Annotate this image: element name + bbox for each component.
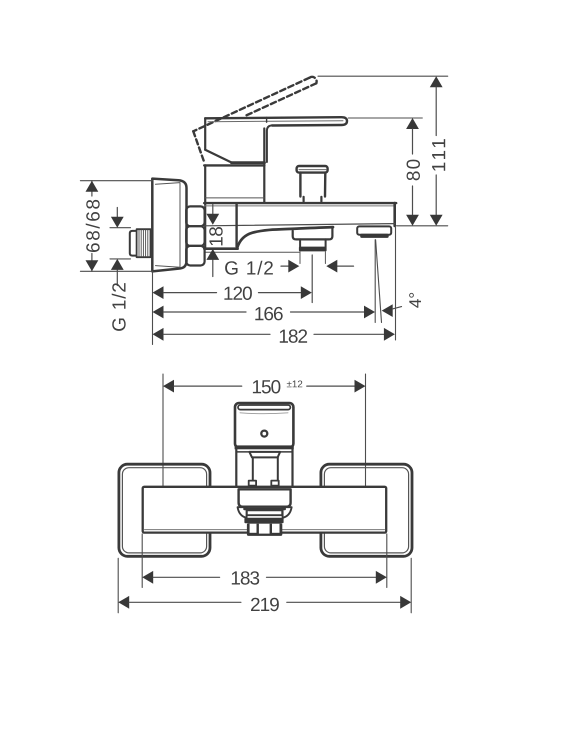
lever front diagonal bbox=[205, 150, 231, 163]
valve body left ear bbox=[238, 507, 247, 518]
right wall centreline bbox=[365, 374, 367, 508]
wall plate inner vertical line bbox=[179, 183, 181, 267]
spout aerator band bbox=[360, 234, 389, 238]
aerator tip slot 2 bbox=[259, 524, 270, 534]
dimension 4deg arrow bbox=[382, 304, 393, 317]
left wall centreline bbox=[162, 374, 164, 508]
183 extension lines bbox=[142, 534, 387, 588]
dimension 120 bbox=[153, 286, 164, 299]
lever parting tick bbox=[266, 117, 268, 122]
body bar inner bottom line bbox=[145, 529, 385, 531]
handle front view bbox=[235, 403, 293, 448]
spout hidden bottom line bbox=[205, 251, 300, 253]
body bar top edge bbox=[204, 202, 396, 204]
shower outlet collar bbox=[293, 227, 333, 239]
shower outlet edge extension lines bbox=[300, 252, 325, 264]
dashed lever lower edge bbox=[247, 83, 317, 115]
aerator tip slot 3 bbox=[272, 524, 280, 533]
wall extension line bbox=[152, 273, 154, 345]
left escutcheon inner bbox=[122, 468, 206, 553]
dimension 68/68 top arrow bbox=[86, 181, 99, 192]
aerator dark band bbox=[244, 518, 283, 524]
neck sides bbox=[253, 457, 278, 480]
dimension 219 bbox=[118, 596, 129, 609]
G 1/2 dimension right arrow bbox=[337, 265, 353, 267]
dimension 183 bbox=[142, 571, 153, 584]
neck collar bbox=[249, 452, 280, 458]
cartridge block top edge bbox=[204, 164, 264, 166]
valve body right ear bbox=[283, 507, 292, 518]
nipple dimension upper arrow bbox=[116, 208, 118, 217]
wall plate inner top line bbox=[156, 183, 181, 185]
aerator tip slot 1 bbox=[250, 524, 257, 533]
label G 1/2 (left, rotated) bbox=[112, 283, 126, 331]
219 extension lines bbox=[118, 558, 411, 613]
label G 1/2 (outlet) bbox=[225, 261, 273, 275]
cartridge block lower thin line bbox=[205, 197, 264, 199]
neck right foot bbox=[271, 481, 278, 486]
hex nut facet 3 bbox=[186, 246, 204, 266]
label 4deg bbox=[409, 293, 421, 308]
extension line raised lever top (111) bbox=[318, 75, 448, 77]
handle shade line bbox=[240, 412, 288, 415]
extension tick nipple top bbox=[110, 227, 131, 229]
wall plate inner bottom line bbox=[156, 266, 181, 268]
cartridge sleeve top line bbox=[236, 451, 292, 453]
bar right edge extension line bbox=[395, 227, 397, 340]
lever top highlight line bbox=[208, 120, 343, 123]
nipple dimension lower arrow bbox=[116, 270, 118, 286]
body bar right edge bbox=[393, 203, 396, 226]
diverter knob inner line bbox=[299, 169, 326, 171]
shower outlet tube bbox=[300, 239, 326, 247]
extension line plate top bbox=[80, 180, 152, 182]
spout block bottom edge bbox=[204, 247, 237, 250]
hex nut facet 2 bbox=[186, 226, 204, 246]
shower outlet thread band bbox=[299, 247, 327, 252]
aerator collar band bbox=[247, 510, 282, 515]
wall plate outline bbox=[152, 179, 186, 272]
dashed lever tip arc bbox=[310, 77, 317, 83]
extension tick nipple bottom bbox=[110, 258, 131, 260]
G 1/2 dimension left arrow bbox=[281, 265, 289, 267]
spout 4deg slant line bbox=[376, 240, 382, 323]
solid lever top bar bbox=[205, 117, 347, 125]
neck left foot bbox=[249, 481, 256, 486]
body bar bottom line bbox=[205, 224, 395, 226]
diverter knob foot bbox=[304, 197, 322, 202]
cartridge sleeve sides bbox=[236, 449, 292, 486]
threaded nipple cap bbox=[130, 231, 137, 256]
spout underside curve bbox=[237, 227, 333, 248]
right escutcheon outer bbox=[321, 464, 412, 556]
valve body block bbox=[239, 489, 291, 506]
dimension 68/68 line bbox=[91, 181, 93, 272]
spout outlet box bbox=[357, 226, 391, 234]
threaded nipple body bbox=[137, 229, 151, 257]
diverter knob body bbox=[300, 173, 325, 197]
extension line body bottom right bbox=[397, 225, 448, 227]
body bar top inner line bbox=[204, 205, 395, 207]
handle top slot bbox=[238, 405, 290, 410]
dimension 166 bbox=[153, 306, 164, 319]
dimension 18 upper arrow bbox=[212, 205, 214, 214]
extension line lever top (80) bbox=[348, 117, 422, 119]
spout block right edge bbox=[235, 204, 237, 247]
left escutcheon outer bbox=[119, 464, 210, 556]
dimension 111 bbox=[430, 76, 443, 87]
label 18 bbox=[209, 227, 222, 245]
dimension 80 bbox=[406, 118, 419, 129]
handle dot bbox=[261, 431, 267, 437]
dashed lever (raised position) upper edge bbox=[193, 78, 309, 132]
lever left edge bbox=[204, 118, 206, 149]
cartridge block left edge + spout block left edge bbox=[204, 165, 206, 248]
body bar front view bbox=[143, 487, 387, 533]
nipple thread hatching bbox=[139, 230, 148, 257]
lever right edge with corner bbox=[267, 125, 272, 162]
dimension 18 lower arrow bbox=[212, 260, 214, 277]
spout vertical reference line bbox=[374, 240, 376, 323]
dashed lever heel bbox=[193, 131, 204, 163]
handle bottom band bbox=[235, 445, 294, 449]
cartridge top dark band bbox=[232, 161, 265, 164]
dimension 150 +-12 bbox=[163, 380, 174, 393]
dimension 68/68 bottom arrow bbox=[86, 260, 99, 271]
diverter knob flange bbox=[297, 166, 328, 173]
right escutcheon inner bbox=[324, 468, 408, 553]
extension line plate bottom bbox=[80, 270, 153, 272]
aerator collar top edge bbox=[245, 508, 285, 511]
hex nut facet 1 bbox=[186, 206, 204, 226]
cartridge block right edge bbox=[263, 129, 265, 203]
label 68/68 bbox=[86, 200, 100, 252]
dimension 182 bbox=[153, 328, 164, 341]
aerator tip body bbox=[247, 523, 282, 536]
shower outlet centreline bbox=[311, 255, 313, 303]
